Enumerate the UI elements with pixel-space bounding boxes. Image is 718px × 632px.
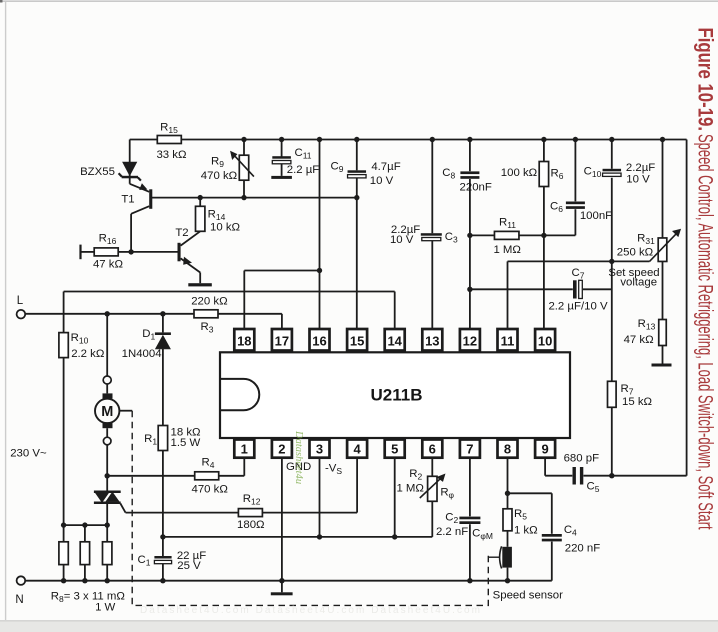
- svg-text:10 V: 10 V: [390, 234, 414, 246]
- svg-text:220 kΩ: 220 kΩ: [191, 296, 228, 308]
- svg-text:U211B: U211B: [371, 386, 423, 405]
- svg-text:2.2 kΩ: 2.2 kΩ: [71, 348, 105, 360]
- svg-text:2: 2: [278, 441, 285, 456]
- svg-text:10: 10: [538, 333, 552, 348]
- svg-text:2.2 nF: 2.2 nF: [436, 526, 468, 538]
- svg-text:T1: T1: [121, 194, 134, 206]
- svg-text:1N4004: 1N4004: [122, 348, 162, 360]
- svg-text:25 V: 25 V: [177, 560, 201, 572]
- svg-text:17: 17: [275, 333, 289, 348]
- svg-text:1 MΩ: 1 MΩ: [396, 483, 424, 495]
- svg-text:1 MΩ: 1 MΩ: [493, 244, 521, 256]
- svg-text:100nF: 100nF: [580, 210, 612, 222]
- svg-text:4.7µF: 4.7µF: [371, 161, 400, 173]
- svg-text:1: 1: [241, 441, 248, 456]
- svg-text:680 pF: 680 pF: [564, 453, 600, 465]
- svg-text:voltage: voltage: [620, 277, 657, 289]
- svg-text:1 kΩ: 1 kΩ: [514, 525, 538, 537]
- svg-text:15 kΩ: 15 kΩ: [622, 396, 653, 408]
- svg-text:BZX55: BZX55: [80, 166, 115, 178]
- svg-text:6: 6: [429, 441, 436, 456]
- svg-text:47 kΩ: 47 kΩ: [624, 334, 655, 346]
- svg-text:47 kΩ: 47 kΩ: [93, 259, 124, 271]
- svg-text:Datasheet4u: Datasheet4u: [293, 430, 304, 484]
- svg-text:250 kΩ: 250 kΩ: [617, 247, 654, 259]
- svg-text:3: 3: [316, 441, 323, 456]
- svg-text:220nF: 220nF: [460, 182, 492, 194]
- svg-text:220 nF: 220 nF: [565, 543, 601, 555]
- svg-text:8: 8: [504, 441, 511, 456]
- svg-text:14: 14: [387, 333, 402, 348]
- svg-text:4: 4: [353, 441, 361, 456]
- svg-text:100 kΩ: 100 kΩ: [501, 167, 538, 179]
- svg-text:33 kΩ: 33 kΩ: [156, 149, 187, 161]
- svg-text:470 kΩ: 470 kΩ: [192, 484, 229, 496]
- svg-text:9: 9: [541, 441, 548, 456]
- svg-text:T2: T2: [175, 227, 188, 239]
- svg-text:230 V~: 230 V~: [10, 448, 47, 460]
- svg-text:12: 12: [463, 333, 477, 348]
- svg-text:Figure 10-19.: Figure 10-19.: [693, 28, 716, 132]
- svg-text:L: L: [17, 295, 24, 307]
- svg-text:11: 11: [501, 333, 515, 348]
- svg-text:M: M: [101, 404, 113, 420]
- svg-text:180Ω: 180Ω: [237, 519, 265, 531]
- svg-text:2.2µF: 2.2µF: [626, 162, 655, 174]
- svg-text:Speed sensor: Speed sensor: [493, 590, 563, 602]
- svg-text:7: 7: [466, 441, 473, 456]
- svg-text:16: 16: [312, 333, 326, 348]
- svg-text:13: 13: [425, 333, 439, 348]
- svg-text:1 W: 1 W: [95, 602, 115, 614]
- svg-text:5: 5: [391, 441, 398, 456]
- svg-text:18: 18: [237, 333, 251, 348]
- svg-text:1.5 W: 1.5 W: [171, 437, 201, 449]
- svg-text:2.2 µF/10 V: 2.2 µF/10 V: [548, 301, 608, 313]
- svg-text:470 kΩ: 470 kΩ: [201, 170, 238, 182]
- svg-text:N: N: [15, 594, 23, 606]
- svg-text:10 kΩ: 10 kΩ: [210, 222, 241, 234]
- svg-text:10 V: 10 V: [370, 175, 394, 187]
- svg-text:10 V: 10 V: [626, 174, 650, 186]
- svg-text:Speed Control, Automatic Retri: Speed Control, Automatic Retriggering, L…: [694, 134, 718, 530]
- svg-text:15: 15: [350, 333, 364, 348]
- svg-text:2.2 µF: 2.2 µF: [287, 164, 320, 176]
